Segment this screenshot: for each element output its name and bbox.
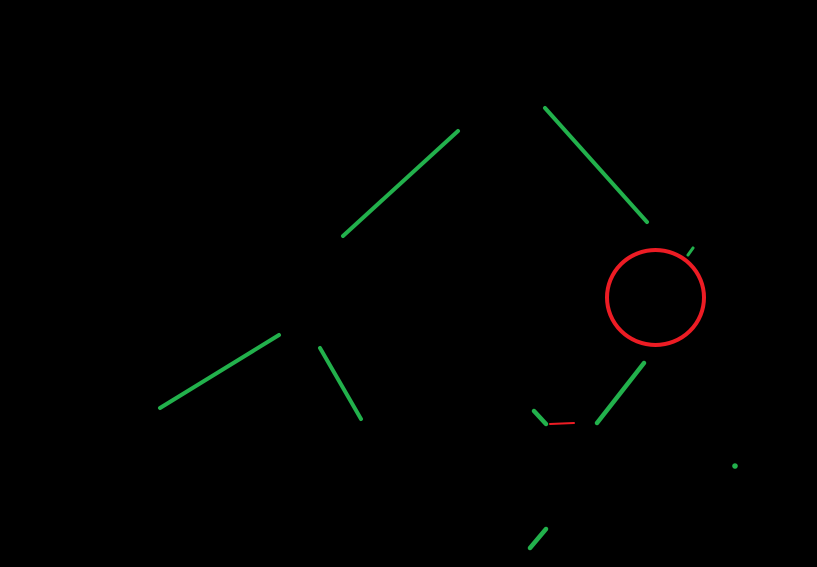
green dot xyxy=(732,463,738,469)
green diagonal line below circle xyxy=(597,363,644,423)
green stroke middle falling line xyxy=(320,348,361,419)
red circle xyxy=(607,250,704,345)
thin red horizontal line xyxy=(550,423,574,424)
short green backslash segment xyxy=(534,411,546,424)
short green bottom slash segment xyxy=(530,529,546,548)
green tick near circle top-right xyxy=(688,248,693,255)
green stroke lower-left rising line xyxy=(160,335,279,408)
green stroke upper-left rising line xyxy=(343,131,458,236)
green stroke upper-right falling line xyxy=(545,108,647,222)
